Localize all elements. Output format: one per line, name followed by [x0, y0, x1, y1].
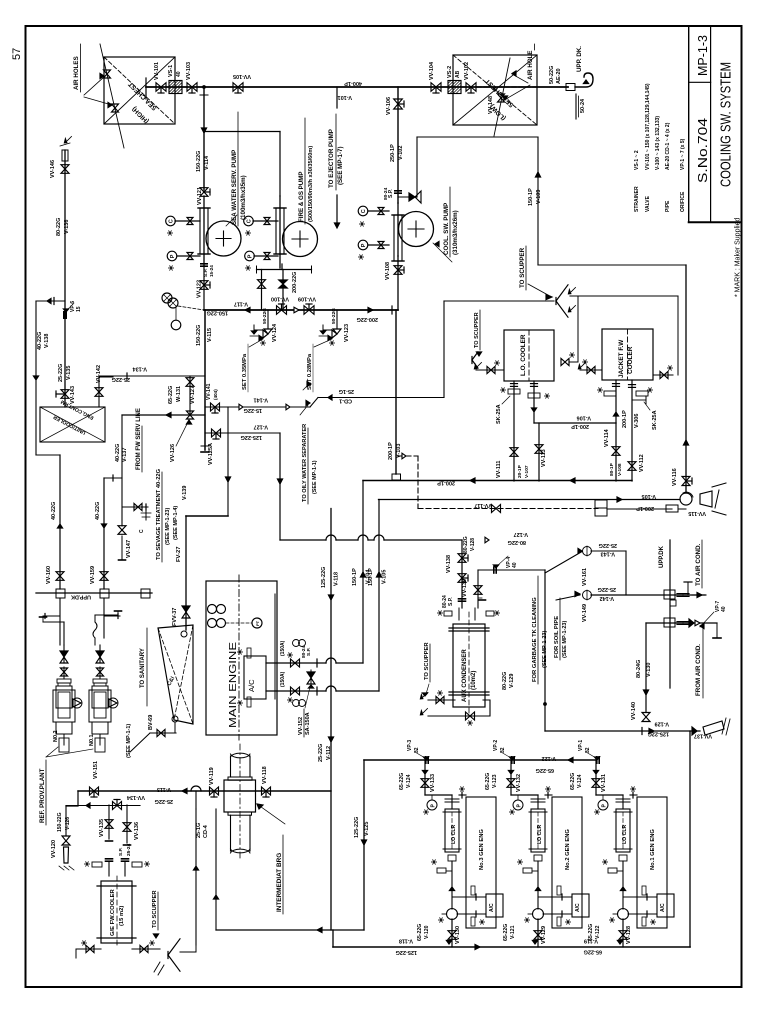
deck box on soil line — [664, 590, 675, 599]
svg-text:V-135: V-135 — [66, 366, 72, 380]
pressure gauge No.3 GEN ENG — [431, 795, 433, 800]
AC cooler box No.2 GEN ENG — [572, 894, 589, 917]
svg-text:REF. PROV.PLANT: REF. PROV.PLANT — [39, 768, 46, 823]
svg-text:TO SCUPPER: TO SCUPPER — [519, 247, 526, 288]
svg-text:65-22G: 65-22G — [503, 924, 509, 941]
valve VV-143 — [61, 390, 69, 394]
pressure gauge No.2 GEN ENG — [517, 795, 519, 800]
svg-text:125-22G: 125-22G — [396, 949, 417, 955]
SEA WATER SERV PUMP suction — [203, 196, 205, 266]
svg-text:MAIN ENGINE: MAIN ENGINE — [228, 642, 239, 728]
line TO EJECTOR PUMP — [336, 87, 338, 108]
line SEE MP-1-1 — [130, 733, 150, 752]
gauge C cool sw pump — [358, 206, 368, 216]
orifice VP-4 — [493, 567, 495, 573]
svg-text:S.No.704: S.No.704 — [696, 118, 710, 183]
return cross line — [216, 929, 364, 931]
svg-text:VV-135: VV-135 — [99, 819, 105, 837]
suction branch VV-106 — [397, 87, 399, 203]
GEN ENG box No.2 GEN ENG — [552, 797, 582, 928]
soil line — [591, 594, 705, 596]
drain line CD-1 to funnel riser — [310, 398, 318, 408]
CD riser — [443, 301, 445, 397]
svg-text:65-22G: 65-22G — [168, 386, 174, 404]
return line 125-22G V-129 — [545, 730, 700, 732]
orifice VP-1 — [596, 757, 598, 763]
flange on header at cool pump — [391, 306, 393, 314]
svg-text:80-24G: 80-24G — [636, 660, 642, 678]
svg-text:V-109: V-109 — [536, 190, 542, 204]
deck boxes — [56, 589, 65, 598]
svg-text:V-122: V-122 — [542, 755, 556, 761]
LO CLR cooler No.3 GEN ENG — [451, 795, 453, 809]
svg-text:V-123: V-123 — [492, 774, 498, 788]
svg-text:BV-69: BV-69 — [148, 715, 154, 730]
svg-text:No.1 GEN ENG: No.1 GEN ENG — [650, 829, 656, 870]
pump glyph VV-115 overboard — [680, 493, 692, 505]
branch valve VV-132 — [510, 760, 512, 795]
svg-text:50-22G: 50-22G — [331, 308, 337, 324]
deck line at vent — [575, 94, 577, 119]
svg-text:SK-25A: SK-25A — [652, 410, 658, 430]
engine internal pipe — [274, 594, 276, 699]
svg-text:VV-105: VV-105 — [233, 73, 251, 79]
svg-text:150-1P: 150-1P — [352, 568, 358, 586]
valve VV-148 — [498, 94, 505, 98]
svg-text:STRAINER: STRAINER — [634, 186, 640, 212]
svg-text:TO SCUPPER: TO SCUPPER — [474, 312, 480, 348]
svg-text:VV-120: VV-120 — [51, 840, 57, 858]
engine gauges — [208, 605, 217, 614]
orifice VP-2 — [511, 757, 513, 763]
svg-text:VV-142: VV-142 — [96, 365, 102, 383]
branch to ref plant line — [104, 477, 122, 479]
V-104 riser 150-1P — [362, 481, 364, 664]
cooler outlet No.1 GEN ENG — [622, 861, 624, 909]
valve VV-121 — [200, 188, 208, 192]
svg-text:VV-141: VV-141 — [206, 383, 212, 400]
svg-text:VS-1 ~ 2: VS-1 ~ 2 — [634, 150, 640, 170]
dashed crossover line — [398, 455, 418, 457]
flow arrow open — [294, 307, 299, 313]
svg-text:FROM FW SERV LINE: FROM FW SERV LINE — [136, 408, 142, 470]
garbage drop — [625, 551, 627, 595]
svg-text:65-22G: 65-22G — [584, 949, 602, 955]
gauge P cool sw pump — [358, 240, 368, 250]
svg-text:FV-27: FV-27 — [176, 547, 182, 562]
svg-text:V-141: V-141 — [254, 397, 268, 403]
valve VV-127 — [189, 376, 191, 415]
COOL SW PUMP suction strainer — [397, 203, 399, 256]
svg-text:VV-114: VV-114 — [604, 428, 610, 447]
svg-text:V-115: V-115 — [207, 328, 213, 342]
svg-text:200-1P: 200-1P — [437, 480, 455, 486]
LO cooler outlet right — [533, 381, 535, 423]
stub above soil line — [687, 582, 689, 595]
below deck stubs — [59, 598, 61, 645]
svg-text:40-22G: 40-22G — [37, 332, 43, 350]
valve VV-159 — [103, 478, 105, 589]
return riser right — [689, 731, 691, 947]
svg-text:65-22G: 65-22G — [417, 924, 423, 941]
svg-text:VV-106: VV-106 — [386, 97, 392, 115]
GE cooler bottom valves — [82, 948, 101, 950]
svg-text:125-22G: 125-22G — [321, 567, 327, 588]
LO CLR cooler No.1 GEN ENG — [622, 795, 624, 809]
main 150-22G drop from header — [204, 310, 206, 450]
svg-text:SET 0.35MPa: SET 0.35MPa — [242, 353, 248, 390]
valve VV-118 — [262, 787, 267, 795]
discharge header 200-22G — [204, 309, 398, 311]
svg-text:VV-121: VV-121 — [197, 187, 203, 205]
svg-text:S.P.: S.P. — [448, 597, 454, 606]
svg-text:V-122: V-122 — [595, 925, 601, 939]
svg-text:125-22G: 125-22G — [648, 731, 669, 737]
svg-text:150-22G: 150-22G — [196, 151, 202, 172]
svg-text:VV-148: VV-148 — [488, 96, 494, 114]
svg-text:25-22G: 25-22G — [155, 798, 173, 804]
line 200-1P V-106 low — [534, 422, 616, 424]
aux condenser drain left — [428, 699, 455, 701]
valve VV-104 — [431, 83, 436, 92]
return valve VV-128 — [622, 919, 624, 947]
link to lower header — [175, 732, 177, 734]
branch to cooler No.3 GEN ENG — [425, 794, 452, 796]
relief valve VV-123 branch — [336, 310, 338, 328]
vent line flange — [566, 84, 575, 91]
svg-text:TO EJECTOR PUMP: TO EJECTOR PUMP — [328, 129, 335, 188]
V-105 riser 150-1P — [378, 500, 380, 692]
svg-text:VS-1: VS-1 — [168, 65, 174, 77]
svg-text:VV-131: VV-131 — [601, 774, 607, 792]
svg-text:VV-103: VV-103 — [186, 62, 192, 80]
valve BV-69 — [174, 722, 176, 733]
diagonal to garbage valves — [545, 552, 582, 574]
vent pipe VV-124 — [254, 325, 263, 330]
relief valve VV-124 branch — [267, 310, 269, 328]
svg-text:VV-129: VV-129 — [541, 926, 547, 944]
svg-text:COOL. SW. PUMP: COOL. SW. PUMP — [443, 203, 450, 255]
valve VV-147 — [118, 526, 126, 530]
vent gooseneck to UPP DK — [575, 73, 593, 87]
svg-text:VV-124: VV-124 — [272, 323, 278, 342]
svg-text:80-1P: 80-1P — [609, 462, 615, 476]
svg-text:A/C: A/C — [489, 903, 495, 912]
svg-text:AUX CONDENSER: AUX CONDENSER — [462, 649, 468, 702]
svg-text:VV-134: VV-134 — [126, 794, 145, 800]
valve VV-117 — [492, 505, 497, 513]
pump circle No.2 GEN ENG — [533, 909, 544, 920]
vent LO cooler left — [476, 369, 504, 371]
GEN ENG box No.3 GEN ENG — [466, 797, 496, 928]
JACKET FW COOLER box — [602, 329, 653, 380]
svg-text:15-22G: 15-22G — [244, 407, 262, 413]
return valve VV-130 — [451, 919, 453, 947]
return main 200-1P — [363, 480, 632, 482]
svg-text:V-142: V-142 — [600, 595, 614, 601]
valve VV-149 — [583, 591, 592, 600]
svg-text:W-131: W-131 — [176, 386, 182, 402]
AC cooler box No.1 GEN ENG — [657, 894, 674, 917]
small box below — [670, 600, 676, 606]
drop VV-136 — [126, 805, 128, 843]
svg-text:VV-143: VV-143 — [70, 386, 76, 404]
svg-text:SA-150A: SA-150A — [305, 712, 311, 735]
valve VV-102 — [466, 83, 471, 92]
svg-text:AB: AB — [455, 70, 461, 78]
svg-text:CD-4: CD-4 — [203, 824, 209, 838]
svg-text:TO SEVAGE TREATMENT 40-22G: TO SEVAGE TREATMENT 40-22G — [156, 468, 162, 560]
aux condenser feed VV-138 — [461, 540, 463, 608]
svg-text:(15 m2): (15 m2) — [119, 906, 125, 926]
strainer VS-1 — [169, 81, 182, 94]
svg-text:UPP. DK.: UPP. DK. — [576, 46, 583, 72]
svg-text:VV-122: VV-122 — [197, 280, 203, 298]
JFW vent riser — [677, 296, 679, 375]
aux condenser feed drop — [279, 433, 281, 540]
valve VV-108 — [397, 256, 399, 310]
engine inlet flange No.1 GEN ENG — [630, 794, 637, 796]
svg-text:VV-125A: VV-125A — [208, 443, 214, 465]
garbage line — [591, 550, 626, 552]
svg-text:A/C: A/C — [660, 903, 666, 912]
svg-text:(SEE MP-1-23): (SEE MP-1-23) — [562, 621, 568, 658]
svg-text:125-22G: 125-22G — [354, 817, 360, 838]
svg-text:50-22G: 50-22G — [262, 308, 268, 324]
svg-text:MP-1-3: MP-1-3 — [695, 35, 710, 76]
relief VV-152 SA-150A — [310, 670, 312, 684]
valve VV-160 — [59, 455, 61, 589]
return valve VV-129 — [537, 919, 539, 947]
svg-text:50-24: 50-24 — [580, 98, 586, 113]
svg-text:VV-160: VV-160 — [46, 566, 52, 584]
cooler outlet No.2 GEN ENG — [537, 861, 539, 909]
svg-text:VV-138: VV-138 — [446, 555, 452, 573]
svg-text:25-22G: 25-22G — [598, 586, 616, 592]
svg-text:V-125: V-125 — [364, 822, 370, 836]
svg-text:VV-136: VV-136 — [134, 822, 140, 840]
svg-text:V-106: V-106 — [577, 415, 591, 421]
svg-text:200-1P: 200-1P — [622, 410, 628, 428]
svg-text:No.2 GEN ENG: No.2 GEN ENG — [565, 829, 571, 870]
sanitary hose connection — [122, 506, 148, 508]
arrow header right — [368, 307, 373, 312]
gen return header 125-22G — [333, 946, 690, 948]
svg-text:(150A): (150A) — [280, 640, 286, 656]
LO COOLER box — [504, 330, 554, 381]
svg-text:V-137: V-137 — [122, 448, 128, 462]
JFW cooler outlet right — [631, 380, 633, 462]
svg-text:V-127: V-127 — [254, 424, 268, 430]
svg-text:FOR GARBAGE TK CLEANING: FOR GARBAGE TK CLEANING — [532, 597, 538, 682]
AC piping No.1 GEN ENG — [623, 896, 657, 898]
svg-text:VV-116: VV-116 — [672, 468, 678, 486]
svg-text:V-129: V-129 — [509, 674, 515, 688]
valve VV-141 line 15-22G — [205, 406, 310, 408]
JFW cooler outlet left — [615, 380, 617, 423]
svg-text:SEA WATER SERV. PUMP: SEA WATER SERV. PUMP — [231, 150, 238, 225]
svg-text:VV-101: VV-101 — [154, 62, 160, 80]
svg-text:C: C — [361, 209, 367, 213]
svg-text:VP-1 ~ 7 (x 5): VP-1 ~ 7 (x 5) — [680, 138, 686, 170]
svg-text:V-114: V-114 — [204, 155, 210, 170]
C&I crossed frame — [158, 625, 193, 724]
svg-text:FIRE & GS PUMP: FIRE & GS PUMP — [298, 171, 305, 222]
valve VV-126 line — [122, 414, 205, 416]
AC upper branch — [266, 662, 326, 664]
svg-text:40: 40 — [721, 606, 727, 612]
manifold valve 2 closed — [279, 280, 288, 284]
svg-text:PT: PT — [255, 620, 260, 626]
svg-text:80-22G: 80-22G — [463, 536, 469, 553]
SP flange cool sw pump — [395, 190, 401, 192]
svg-text:N0.2: N0.2 — [53, 730, 59, 742]
deck line lower left — [36, 592, 152, 594]
drop VV-135 — [108, 805, 110, 839]
dashed header inside chest — [477, 86, 537, 88]
svg-text:VP-1: VP-1 — [578, 740, 584, 751]
left branch to VV-134 — [66, 791, 78, 806]
svg-text:S.P.: S.P. — [306, 647, 312, 656]
hull line at sea chest HIGH — [100, 44, 124, 148]
svg-text:V-105: V-105 — [382, 570, 388, 584]
svg-text:VV-139: VV-139 — [462, 579, 468, 597]
svg-text:50-22G: 50-22G — [549, 66, 555, 84]
aux condenser right branch — [477, 570, 479, 608]
valve VV-161 garbage — [583, 547, 592, 556]
svg-text:VP-3: VP-3 — [407, 740, 413, 751]
svg-text:FVV-37: FVV-37 — [172, 608, 178, 626]
vent JFW cooler right — [653, 374, 673, 376]
svg-text:G/E FW.COOLER: G/E FW.COOLER — [110, 888, 116, 936]
svg-text:SK-25A: SK-25A — [496, 404, 502, 424]
valve VV-103 — [187, 83, 192, 92]
svg-text:150-22G: 150-22G — [57, 812, 63, 832]
svg-text:AIR HOLES: AIR HOLES — [73, 56, 80, 90]
manifold valve 1 — [258, 280, 266, 284]
FV-27 drop line — [185, 516, 187, 630]
SB circle lower — [293, 700, 300, 707]
orifice VP-3 — [425, 757, 427, 763]
svg-text:COOLER: COOLER — [627, 346, 634, 374]
svg-text:VV-147: VV-147 — [126, 540, 132, 558]
svg-text:AE-20: AE-20 — [556, 68, 562, 84]
funnel right header — [570, 295, 678, 297]
main suction header pipe — [146, 86, 568, 88]
blind stub right — [632, 399, 646, 401]
left drain 150-22G V-126 — [65, 806, 67, 836]
orifice box on V-103 — [392, 474, 401, 480]
svg-text:25-24: 25-24 — [126, 843, 132, 856]
line V-134 25-22G — [99, 375, 205, 377]
svg-text:V-112: V-112 — [326, 746, 332, 760]
svg-text:FROM AIR COND.: FROM AIR COND. — [695, 644, 702, 696]
svg-text:VV-133: VV-133 — [430, 774, 436, 792]
ref plant top piping — [43, 621, 64, 623]
REF unit NO.1 — [99, 645, 101, 663]
gauge cluster on header — [162, 293, 172, 303]
svg-text:40-22G: 40-22G — [95, 502, 101, 520]
gauge P sea water pump — [167, 251, 177, 261]
deck line upper right — [669, 540, 671, 688]
valve VV-100 — [277, 306, 282, 315]
pump circle COOL SW PUMP — [399, 212, 434, 247]
gauge C fire pump — [244, 216, 254, 226]
svg-text:25-22G: 25-22G — [58, 364, 64, 382]
svg-text:VV-128: VV-128 — [626, 926, 632, 944]
sea chest HIGH box — [104, 57, 175, 124]
FW serv drop — [121, 415, 123, 526]
svg-text:UPP.DK: UPP.DK — [659, 545, 665, 568]
junction node suction drop — [203, 86, 206, 89]
TO SCUPPER funnel main — [556, 285, 568, 301]
valve VV-142 — [98, 386, 100, 407]
svg-text:V-134: V-134 — [132, 366, 147, 372]
engine inlet flange No.2 GEN ENG — [545, 794, 552, 796]
valve VV-113 — [538, 423, 540, 481]
valve VV-139 — [458, 574, 466, 578]
svg-text:V-306: V-306 — [634, 414, 640, 428]
svg-text:VV-109: VV-109 — [298, 296, 316, 302]
svg-text:(310m3/hx26m): (310m3/hx26m) — [452, 210, 459, 255]
svg-text:(150A): (150A) — [280, 671, 286, 687]
branch valve VV-133 — [424, 760, 426, 795]
svg-text:200-22G: 200-22G — [357, 316, 378, 322]
feed line to aux condenser — [280, 539, 326, 541]
from air cond line — [646, 622, 717, 624]
svg-text:VV-115: VV-115 — [688, 510, 706, 516]
svg-text:TO AIR COND.: TO AIR COND. — [695, 543, 702, 586]
svg-text:COOLING SW. SYSTEM: COOLING SW. SYSTEM — [719, 62, 735, 187]
svg-text:VALVE: VALVE — [645, 195, 651, 212]
ENG CONT RM UNIT COOLER box — [40, 407, 105, 442]
svg-text:VV-101 ~ 150 (x 107,128,129,14: VV-101 ~ 150 (x 107,128,129,144,145) — [645, 83, 651, 170]
AC piping No.3 GEN ENG — [452, 896, 486, 898]
svg-text:V-127: V-127 — [514, 531, 528, 537]
svg-text:AIR HOLE: AIR HOLE — [527, 50, 534, 80]
svg-text:V-118: V-118 — [334, 572, 340, 586]
svg-text:150-22G: 150-22G — [207, 310, 228, 316]
svg-text:VV-149: VV-149 — [582, 604, 588, 622]
FIRE GS PUMP suction — [279, 196, 281, 268]
REF unit NO.2 — [63, 645, 65, 663]
engine AC cooler box — [244, 656, 266, 699]
svg-text:(SEE MP-1-1): (SEE MP-1-1) — [126, 724, 132, 758]
svg-text:V-124: V-124 — [577, 774, 583, 788]
air hole valve 2 — [112, 104, 119, 108]
LO CLR cooler No.2 GEN ENG — [537, 795, 539, 809]
svg-text:TO SCUPPER: TO SCUPPER — [424, 642, 430, 680]
valve VV-106 — [394, 99, 403, 104]
svg-text:40-22G: 40-22G — [115, 444, 121, 462]
fire pump discharge manifold — [281, 264, 283, 270]
funnel ge cooler — [168, 939, 180, 955]
FVV-37 line — [182, 606, 190, 612]
LO cooler outlet left — [513, 381, 515, 481]
svg-text:V-138: V-138 — [44, 334, 50, 348]
svg-text:V-102: V-102 — [398, 146, 404, 160]
svg-text:VV-161: VV-161 — [582, 568, 588, 586]
svg-text:V-107: V-107 — [524, 465, 530, 478]
svg-text:S.P.: S.P. — [118, 847, 124, 856]
svg-text:40: 40 — [176, 71, 182, 77]
svg-text:VV-146: VV-146 — [50, 160, 56, 178]
SP flange sea water pump — [201, 263, 207, 265]
svg-text:TO OILY WATER SEPARATER: TO OILY WATER SEPARATER — [302, 424, 308, 502]
valve VV-116 — [682, 477, 690, 482]
svg-text:V-108: V-108 — [617, 463, 623, 476]
line to sanitary drop — [227, 407, 229, 516]
